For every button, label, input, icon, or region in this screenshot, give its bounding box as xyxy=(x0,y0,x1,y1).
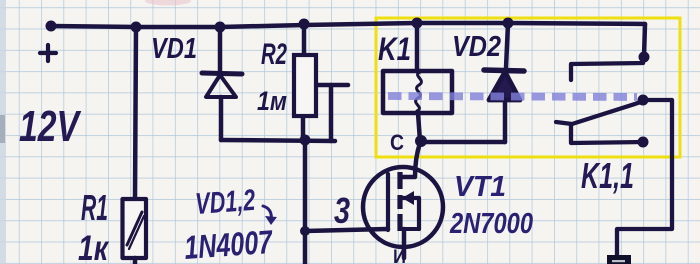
relay coil K1 xyxy=(383,71,452,113)
svg-text:K1: K1 xyxy=(378,31,411,67)
svg-text:R1: R1 xyxy=(81,187,108,228)
wire stub drop xyxy=(329,85,334,141)
wire gate vertical xyxy=(303,140,308,264)
wire VD2 top lead xyxy=(506,23,508,68)
wire VD1 branch xyxy=(218,27,223,72)
svg-text:12V: 12V xyxy=(19,102,82,151)
terminal block xyxy=(607,255,631,264)
wire VD2 bottom lead xyxy=(503,100,508,142)
svg-text:1N4007: 1N4007 xyxy=(183,223,275,264)
wire gate horizontal xyxy=(305,229,388,231)
svg-text:1к: 1к xyxy=(78,229,110,264)
pink smudge top xyxy=(145,0,191,6)
svg-text:VD1: VD1 xyxy=(151,33,197,65)
wire top rail xyxy=(51,23,645,27)
svg-text:1м: 1м xyxy=(257,86,287,116)
svg-text:K1,1: K1,1 xyxy=(581,155,634,196)
purple dashed marker line xyxy=(388,96,637,97)
wire R2 top lead xyxy=(302,24,307,55)
relay contact K1,1 xyxy=(556,57,672,256)
wire drain xyxy=(401,143,420,177)
diode VD1 xyxy=(202,73,242,97)
svg-text:И: И xyxy=(393,247,406,264)
wire K1 bottom lead xyxy=(418,113,420,141)
wire R1 branch xyxy=(135,27,136,199)
resistor R2 xyxy=(294,55,316,116)
wire VD1 anode to bottom rail xyxy=(219,97,224,140)
diode VD2 xyxy=(484,70,524,100)
label arrow after VD1,2 xyxy=(263,206,277,225)
svg-text:VD1,2: VD1,2 xyxy=(194,184,256,221)
svg-text:VT1: VT1 xyxy=(454,171,506,203)
yellow highlight box xyxy=(376,18,680,157)
left scan edge band xyxy=(0,0,6,264)
wire R2 bottom lead xyxy=(301,116,306,140)
wire R2 side stub xyxy=(312,83,348,88)
svg-text:3: 3 xyxy=(334,190,350,231)
svg-text:C: C xyxy=(390,130,404,155)
wire K1 top lead xyxy=(415,23,420,71)
wire source exit xyxy=(402,229,407,258)
svg-text:R2: R2 xyxy=(261,38,287,71)
svg-text:VD2: VD2 xyxy=(452,31,501,63)
svg-text:2N7000: 2N7000 xyxy=(449,208,533,240)
wire bottom-left rail xyxy=(221,140,335,141)
wire node C to VD2 xyxy=(421,140,505,145)
plus terminal xyxy=(40,45,56,61)
wire rail right drop xyxy=(644,24,645,57)
transistor VT1 (MOSFET) xyxy=(363,167,443,247)
resistor R1 xyxy=(123,199,147,264)
node dots xyxy=(46,18,650,237)
